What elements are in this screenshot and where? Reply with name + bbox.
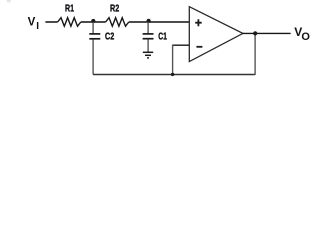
wire minus input: [172, 44, 189, 46]
capacitor C2: [89, 22, 100, 75]
stray antialiasing speck top-left: [7, 0, 11, 2]
resistor R1: [58, 18, 81, 27]
wire feedback bottom rail: [93, 74, 255, 76]
node VO output label: [294, 25, 310, 43]
wire R2 to op-amp plus input: [129, 21, 190, 23]
wire feedback vertical: [254, 33, 256, 75]
wire output: [242, 32, 290, 34]
svg-text:R1: R1: [65, 4, 74, 15]
svg-text:O: O: [301, 31, 310, 43]
node VI input label: [28, 17, 40, 32]
wire input to R1: [45, 21, 57, 23]
op-amp U1: [189, 7, 243, 62]
ground: [143, 52, 153, 58]
wire R1 to R2: [81, 21, 106, 23]
node A junction dot: [91, 19, 95, 23]
capacitor C1: [143, 22, 154, 52]
svg-text:I: I: [36, 21, 39, 32]
node B junction dot: [147, 19, 151, 23]
svg-text:C2: C2: [105, 32, 114, 43]
svg-text:R2: R2: [110, 4, 119, 15]
junction dot on rail: [171, 73, 174, 76]
svg-text:C1: C1: [158, 32, 167, 43]
output node junction dot: [253, 31, 257, 35]
resistor R2: [106, 18, 129, 27]
svg-text:V: V: [28, 17, 36, 29]
